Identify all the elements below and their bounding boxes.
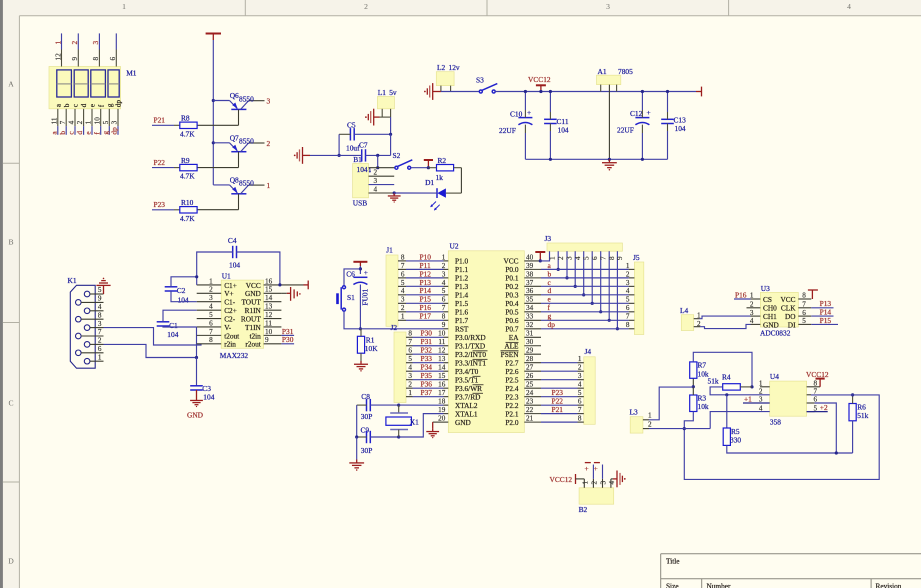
svg-text:4: 4 [574,256,582,260]
svg-text:32: 32 [526,321,534,329]
svg-text:MAX232: MAX232 [220,351,249,360]
J2 row 17 [406,396,413,398]
svg-text:2: 2 [70,41,79,45]
svg-text:22: 22 [526,406,534,414]
svg-text:A1: A1 [598,67,607,76]
svg-text:3: 3 [91,41,100,45]
svg-text:dp: dp [548,320,556,329]
svg-text:7: 7 [599,256,607,260]
svg-text:29: 29 [526,347,534,355]
regulator A1 7805 [597,75,621,84]
U2 row 15 [444,379,449,381]
svg-text:104: 104 [203,393,214,402]
svg-text:Number: Number [707,581,731,588]
U1 pin 8/9 row [197,343,222,345]
J2 row 14 [406,370,413,372]
svg-text:P17: P17 [420,312,432,321]
svg-text:15: 15 [438,372,446,380]
svg-text:+: + [594,464,598,473]
svg-text:3: 3 [111,120,119,124]
svg-text:VCC12: VCC12 [550,475,573,484]
svg-text:104: 104 [675,124,686,133]
svg-text:6: 6 [109,57,117,61]
svg-text:12v: 12v [449,63,460,72]
power jack L1 5v [377,97,394,109]
svg-text:M1: M1 [126,69,137,78]
svg-text:6: 6 [591,256,599,260]
wire P0.5 row [541,311,629,313]
svg-text:2: 2 [557,256,565,260]
svg-text:2: 2 [590,481,598,485]
U1 pin 1/16 row [197,284,222,286]
svg-text:2: 2 [267,139,271,148]
svg-text:5: 5 [442,287,446,295]
J1 row 1 [398,260,406,262]
U2 pin40 power T [535,252,545,261]
svg-text:CS: CS [763,295,772,304]
svg-text:U4: U4 [770,372,779,381]
ground at U1 pin15 [281,292,286,294]
svg-text:30P: 30P [361,412,373,421]
svg-text:17: 17 [438,389,446,397]
svg-text:+: + [585,464,589,473]
U1 pin 6/11 row [197,326,222,328]
svg-text:C7: C7 [359,140,368,149]
resistor R10 4.7K [152,198,197,223]
svg-text:2: 2 [442,262,446,270]
U2 row 13 [444,362,449,364]
svg-text:1: 1 [648,412,652,420]
svg-text:J5: J5 [633,253,640,262]
svg-text:38: 38 [526,270,534,278]
wire K1 pin2 to MAX232/C3 [104,344,197,357]
wire node down to B1 pin1 [390,134,392,155]
svg-text:+: + [647,108,651,117]
svg-text:7: 7 [814,388,818,396]
J4 row 4 [578,387,584,389]
svg-text:L3: L3 [630,408,639,417]
J5 row 4 [629,294,635,296]
svg-text:3: 3 [98,320,102,328]
svg-text:2: 2 [76,120,84,124]
svg-text:U3: U3 [761,284,770,293]
svg-text:4: 4 [847,2,851,11]
svg-text:7: 7 [442,304,446,312]
crystal X1 [398,405,400,413]
svg-text:C4: C4 [228,236,237,245]
op-amp U4 358 [770,381,807,416]
svg-text:2: 2 [578,364,582,372]
svg-text:8550: 8550 [239,94,254,103]
svg-text:4: 4 [98,303,102,311]
svg-text:10K: 10K [365,344,378,353]
svg-text:104: 104 [229,261,240,270]
svg-text:L2: L2 [437,63,446,72]
wire C5 left down to C7 row [338,134,340,155]
svg-text:4: 4 [68,120,76,124]
J3 pin 6 drop [591,251,593,303]
svg-text:2: 2 [401,304,405,312]
right terminal [696,87,702,97]
svg-text:1: 1 [209,277,213,285]
svg-text:R9: R9 [181,156,190,165]
J5 row 6 [629,311,635,313]
svg-text:23: 23 [526,398,534,406]
U2 row 7 [444,311,449,313]
U2 row 11 [444,345,449,347]
svg-text:9: 9 [98,295,102,303]
svg-text:C9: C9 [361,426,370,435]
svg-text:8550: 8550 [239,137,254,146]
wire K1 pin3 to MAX232 [104,328,202,345]
svg-text:VCC: VCC [780,295,795,304]
plug right of B2 [611,478,613,480]
svg-text:1: 1 [85,120,93,124]
svg-text:S2: S2 [393,151,401,160]
svg-text:DI: DI [788,320,796,329]
wire P0.2 row [541,285,629,287]
svg-text:r2in: r2in [224,340,236,349]
svg-text:4: 4 [374,185,378,193]
svg-text:ADC0832: ADC0832 [760,329,791,338]
svg-text:8: 8 [92,57,100,61]
network J3 [547,243,622,251]
MCU U2 [448,251,524,433]
svg-text:20: 20 [438,415,446,423]
ground under A1 [608,158,611,161]
U2 row 3 [444,277,449,279]
wire U4 pin6 down [815,403,837,453]
svg-text:7: 7 [802,301,806,309]
svg-text:r2out: r2out [245,340,260,349]
U2 row 19 [444,413,449,415]
svg-text:3: 3 [606,2,610,11]
U2 row 6 [444,302,449,304]
svg-text:1: 1 [581,481,589,485]
wire U4 pin7 loop [684,395,879,480]
svg-text:J3: J3 [545,234,552,243]
svg-text:4: 4 [578,381,582,389]
U3 row 3 [751,315,761,317]
connector J2 [394,332,406,403]
svg-text:27: 27 [526,364,534,372]
ADC U3 ADC0832 [760,292,798,327]
svg-text:16: 16 [265,277,273,285]
J1 row 5 [398,294,406,296]
svg-text:6: 6 [401,270,405,278]
J3 pin 8 drop [608,251,610,320]
svg-text:6: 6 [98,345,102,353]
svg-text:g: g [105,103,114,107]
ground plug at L2 [424,83,433,100]
connector J1 [386,255,398,326]
svg-text:A: A [8,80,14,89]
USB connector B1 [353,164,369,198]
svg-text:3: 3 [442,270,446,278]
svg-text:6: 6 [578,398,582,406]
svg-text:3: 3 [374,177,378,185]
svg-text:1: 1 [697,311,701,319]
svg-text:330: 330 [730,435,741,444]
svg-text:8: 8 [408,330,412,338]
J1 row 6 [398,302,406,304]
J4 row 7 [578,413,584,415]
svg-text:2: 2 [408,381,412,389]
svg-text:33: 33 [526,313,534,321]
svg-text:3: 3 [267,97,271,106]
svg-text:R2: R2 [438,156,447,165]
J4 row 8 [578,421,584,423]
ground plug left of C7 [294,147,303,164]
svg-text:Q6: Q6 [230,91,239,100]
svg-text:3: 3 [750,309,754,317]
svg-text:4.7K: 4.7K [180,172,195,181]
M1 top pin wires [61,33,63,49]
resistor R2 1k [428,167,436,169]
svg-text:9: 9 [71,57,79,61]
wire to RST [360,328,443,330]
op-amp U1 MAX232 [221,280,263,348]
U2 row 5 [444,294,449,296]
U3 row 2 [751,307,761,309]
svg-text:R8: R8 [181,114,190,123]
J1 row 7 [398,311,406,313]
wire C9 to XTAL1 [399,414,444,437]
svg-text:34: 34 [526,304,534,312]
svg-text:7: 7 [209,328,213,336]
wire R2 to D1 [460,168,462,193]
svg-text:P23: P23 [154,200,166,209]
svg-text:dp: dp [110,127,119,135]
J3 pin 7 drop [600,251,602,312]
svg-text:51k: 51k [708,377,719,386]
U2 row 17 [444,396,449,398]
svg-text:51k: 51k [857,411,868,420]
svg-text:U2: U2 [450,242,459,251]
svg-text:2: 2 [98,337,102,345]
svg-text:11: 11 [265,319,272,327]
svg-text:40: 40 [526,253,534,261]
J4 row 5 [578,396,584,398]
svg-text:3: 3 [401,296,405,304]
svg-text:12: 12 [265,311,273,319]
svg-text:5: 5 [98,286,102,294]
svg-text:8: 8 [802,292,806,300]
svg-text:4: 4 [408,364,412,372]
svg-text:7805: 7805 [618,67,633,76]
svg-text:4: 4 [626,287,630,295]
svg-text:5: 5 [209,311,213,319]
J3 pin 5 drop [583,251,585,295]
nets P13 P14 P15 [811,307,833,309]
svg-text:P15: P15 [820,316,832,325]
U2 row 18 [444,404,449,406]
U2 row 12 [444,353,449,355]
power T at U3 pin8 [808,290,818,299]
svg-text:+: + [527,108,531,117]
svg-text:24: 24 [526,389,534,397]
push switch S1 [344,269,360,286]
bottom rail [525,158,667,160]
U2 row 10 [444,336,449,338]
svg-text:26: 26 [526,372,534,380]
svg-text:7: 7 [626,313,630,321]
svg-text:25: 25 [526,381,534,389]
svg-text:5: 5 [401,279,405,287]
svg-text:P21: P21 [552,405,564,414]
M1 bottom pin wires [57,109,59,126]
svg-text:U1: U1 [222,272,231,281]
svg-text:2: 2 [374,169,378,177]
power symbol at U1 pin16 [281,284,303,286]
svg-text:g: g [101,131,110,135]
svg-text:2: 2 [364,2,368,11]
connector L3 [630,417,643,433]
J4 row 3 [578,379,584,381]
svg-text:Size: Size [666,581,679,588]
svg-text:12: 12 [54,53,62,61]
svg-text:P21: P21 [154,116,166,125]
svg-text:C: C [8,399,13,408]
svg-text:9: 9 [442,321,446,329]
svg-text:10k: 10k [698,402,709,411]
wire P0.3 row [541,294,629,296]
svg-text:1: 1 [408,389,412,397]
ground under B1 pin4 [393,191,396,194]
ground plug at L1 [365,109,374,126]
resistor R9 4.7K [152,156,197,181]
svg-text:S1: S1 [347,293,355,302]
svg-text:1k: 1k [436,173,444,182]
svg-text:5: 5 [102,120,110,124]
svg-text:+1: +1 [744,395,752,404]
svg-text:14: 14 [438,364,446,372]
svg-text:11: 11 [50,117,58,124]
svg-text:9: 9 [616,256,624,260]
resistor R5 330 [726,395,728,428]
svg-text:10: 10 [265,328,273,336]
svg-text:13: 13 [438,355,446,363]
connector L4 [681,315,693,331]
battery B2 [579,488,614,504]
J1 row 3 [398,277,406,279]
wire P0.7 row [541,328,629,330]
wire P0.4 row [541,302,629,304]
VCC T at R2 [424,160,433,168]
svg-text:P16: P16 [735,290,747,299]
wire L3 pin1 to R7/R3 node [649,387,693,420]
transistor Q7 (8550 PNP) [197,133,270,167]
J2 row 15 [406,379,413,381]
svg-text:1: 1 [442,253,446,261]
U3 row 1 [751,298,761,300]
J3 pin 3 drop [566,251,568,278]
svg-text:L4: L4 [680,306,689,315]
svg-text:8: 8 [401,253,405,261]
J1 row 4 [398,285,406,287]
svg-text:5: 5 [408,355,412,363]
U2 row 14 [444,370,449,372]
svg-text:3: 3 [566,256,574,260]
svg-text:USB: USB [353,199,367,208]
ground under R1 [354,361,368,372]
svg-text:4: 4 [608,481,616,485]
svg-text:D: D [8,557,14,566]
svg-text:5: 5 [626,296,630,304]
svg-text:16: 16 [438,381,446,389]
svg-text:22UF: 22UF [617,126,634,135]
svg-text:1: 1 [750,292,754,300]
transistor Q8 (8550 PNP) [197,175,270,209]
resistor R3 10k [690,395,697,412]
svg-text:4: 4 [401,287,405,295]
svg-text:30: 30 [526,338,534,346]
svg-text:1: 1 [401,313,405,321]
display module M1 [49,67,121,109]
svg-text:2: 2 [648,420,652,428]
svg-text:1: 1 [267,181,271,190]
svg-text:3: 3 [578,372,582,380]
svg-text:J2: J2 [391,323,398,332]
svg-text:P2.0: P2.0 [505,418,519,427]
svg-text:P37: P37 [421,388,433,397]
svg-text:e: e [88,104,97,107]
svg-text:J1: J1 [386,246,393,255]
wire P0.6 row [541,319,629,321]
svg-text:1: 1 [548,256,556,260]
wire L1 to C5 node [390,117,392,134]
svg-text:GND: GND [763,320,779,329]
U2 row 16 [444,387,449,389]
svg-text:5v: 5v [389,88,397,97]
svg-text:7: 7 [98,328,102,336]
svg-text:2: 2 [626,270,630,278]
svg-text:J4: J4 [585,347,592,356]
svg-text:R4: R4 [722,372,731,381]
svg-text:8: 8 [578,415,582,423]
svg-text:Title: Title [666,557,680,566]
svg-text:1: 1 [98,353,102,361]
svg-text:1: 1 [578,355,582,363]
svg-text:+2: +2 [820,403,828,412]
svg-text:6: 6 [442,296,446,304]
J2 row 12 [406,353,413,355]
U2 row 1 [444,260,449,262]
svg-text:31: 31 [526,330,534,338]
svg-text:4: 4 [209,303,213,311]
svg-text:R10: R10 [181,198,194,207]
J2 row 11 [406,345,413,347]
svg-text:1: 1 [53,40,62,44]
resistor R8 4.7K [152,114,197,139]
svg-text:18: 18 [438,398,446,406]
wire P0.0 row [541,268,629,270]
svg-text:X1: X1 [410,418,419,427]
wire P0.1 row [541,277,629,279]
svg-text:4.7K: 4.7K [180,129,195,138]
svg-text:3: 3 [626,279,630,287]
U1 pin 7/10 row [197,334,222,336]
svg-text:15: 15 [265,286,273,294]
J1 row 8 [398,319,406,321]
svg-text:6: 6 [408,347,412,355]
svg-text:6: 6 [802,309,806,317]
U2 row 9 [444,328,449,330]
svg-text:5: 5 [582,256,590,260]
top power rail [495,91,696,93]
U1 pin 3/14 row [197,301,222,303]
svg-text:36: 36 [526,287,534,295]
